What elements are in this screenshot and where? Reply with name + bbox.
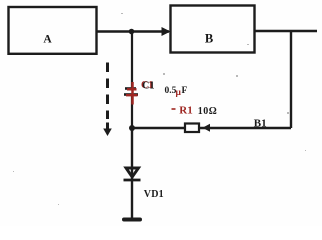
svg-text:10Ω: 10Ω (198, 106, 218, 117)
svg-text:R1: R1 (179, 104, 192, 116)
svg-text:B1: B1 (254, 118, 267, 130)
svg-text:F: F (182, 86, 188, 96)
svg-text:VD1: VD1 (144, 189, 164, 200)
svg-text:B: B (205, 31, 213, 45)
svg-text:A: A (43, 33, 52, 45)
svg-text:C1: C1 (142, 81, 154, 92)
